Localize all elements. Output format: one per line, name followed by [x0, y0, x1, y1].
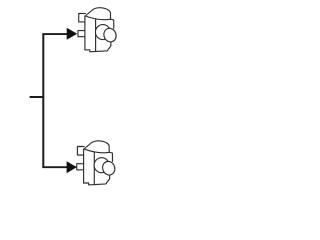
C1 bottom edge [85, 42, 111, 52]
C2 barrel end cap [101, 160, 117, 177]
C2 lid top face [84, 141, 109, 153]
C1 upper tab [79, 13, 86, 22]
C2 upper tab [77, 147, 84, 156]
C2 lower tab [77, 164, 84, 170]
C1 front right edge [95, 19, 97, 52]
C1 body front face fill [85, 16, 114, 52]
wire branch to top connector [42, 33, 68, 35]
wire stub (left tap at mid trunk) [30, 96, 44, 98]
C1 front left edge [84, 16, 86, 50]
C1 lid top face [85, 8, 110, 20]
arrowhead top [67, 28, 78, 40]
C1 right flange step [111, 19, 114, 28]
connector C1 (top socket) [78, 8, 118, 52]
wire branch to bottom connector [42, 166, 68, 168]
C1 barrel end cap [102, 27, 118, 44]
arrowhead bottom [67, 161, 77, 173]
C2 front left edge [83, 149, 85, 183]
C2 front right edge [93, 152, 95, 185]
wire trunk (vertical bus) [42, 34, 44, 167]
C2 bottom edge [84, 175, 110, 185]
C2 body front face fill [84, 149, 113, 185]
connector C2 (bottom socket) [77, 141, 117, 185]
C2 right flange step [109, 152, 112, 161]
C2 barrel base circle [94, 158, 109, 173]
C1 lower tab [78, 31, 85, 37]
C1 barrel base circle [95, 25, 110, 40]
